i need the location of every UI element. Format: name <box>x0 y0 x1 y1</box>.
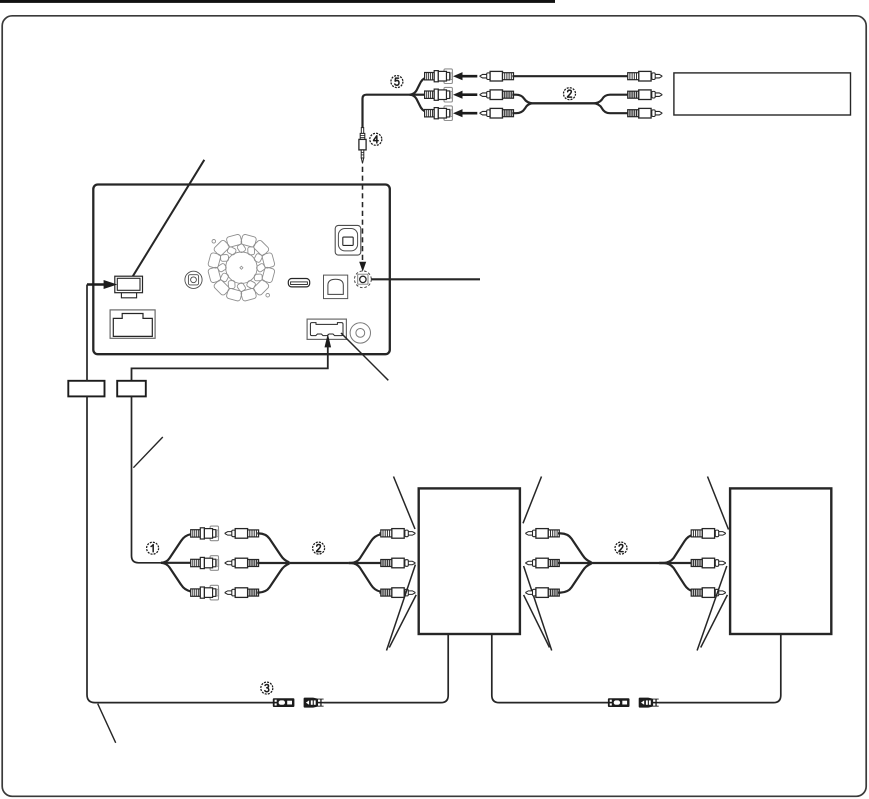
USB type-B port <box>324 275 348 299</box>
AV input mini jack <box>355 271 372 288</box>
ISO wiring connector <box>110 310 155 338</box>
quick disconnect pair right <box>608 698 659 708</box>
cable2a split upper <box>349 533 382 563</box>
label circled 2 left <box>313 542 325 554</box>
wire splitter upper branch <box>410 76 428 94</box>
label circled 2 right <box>615 542 627 554</box>
RCA plug cable2a left 1 <box>225 529 259 539</box>
ground wire box1 right <box>492 635 612 703</box>
leader line on wire 1 <box>133 437 162 468</box>
label circled 5 <box>391 76 403 88</box>
ground wire box2 <box>655 635 781 703</box>
cable2a single wire <box>289 562 349 564</box>
RCA plug cable2a left 2 <box>225 558 259 568</box>
cable2 wire middle row <box>512 95 628 104</box>
plug-in arrow 3 <box>453 109 477 117</box>
cable2b lower merge <box>558 564 592 593</box>
cable2a lower merge <box>257 564 289 593</box>
leader line box1 bottom-left b <box>389 595 416 648</box>
HDMI connector <box>288 279 309 287</box>
cooling fan <box>208 234 276 302</box>
leader line from AV jack <box>371 278 480 280</box>
leader line box1 bottom-right a <box>524 566 552 651</box>
cable2b middle merge <box>558 562 592 564</box>
cable2a middle merge <box>257 562 289 564</box>
splitter1 upper branch <box>161 533 191 562</box>
RCA plug cable2 right 2 <box>628 90 662 100</box>
expansion port connector <box>335 225 361 255</box>
cable2a split middle <box>349 562 382 564</box>
wire splitter middle branch <box>410 94 425 96</box>
RCA plug cable2a left 3 <box>225 588 259 598</box>
label circled 2 top <box>564 88 576 100</box>
label circled 3 <box>261 682 273 694</box>
RCA plug from box1 1 <box>526 529 559 539</box>
leader line bottom left <box>98 704 116 743</box>
RCA plug into box1 1 <box>381 529 415 539</box>
RCA plug into box1 2 <box>381 558 415 568</box>
RCA plug cable2 left 3 <box>480 108 514 118</box>
inline connector box B <box>117 381 146 397</box>
AV adapter female RCA 1-3 <box>191 585 219 600</box>
cable2 wire bottom row <box>512 103 628 113</box>
dashed insertion line <box>362 167 364 261</box>
AV female RCA jack 5-1 <box>425 69 453 84</box>
cable2b split middle <box>659 562 692 564</box>
RCA plug into box1 3 <box>381 588 415 598</box>
external unit box 2 <box>730 488 831 634</box>
cable2b single wire <box>592 562 660 564</box>
arrow down into AV jack <box>359 262 366 272</box>
RCA plug from box1 2 <box>526 558 559 568</box>
splitter1 lower branch <box>161 563 191 593</box>
leader line box2 top-left <box>708 477 729 530</box>
cable2b split lower <box>659 563 694 593</box>
AV female RCA jack 5-3 <box>425 106 453 121</box>
arrow into harness connector <box>87 280 117 289</box>
cable2b split upper <box>659 533 694 563</box>
splitter1 middle branch <box>161 562 191 564</box>
RCA plug into box2 1 <box>691 529 725 539</box>
label box top right <box>674 73 851 115</box>
AV female RCA jack 5-2 <box>425 87 453 102</box>
external unit box 1 <box>419 488 520 634</box>
cable2 wire top row <box>512 75 628 77</box>
wire splitter lower branch <box>410 95 428 113</box>
left wire upper segment <box>86 285 88 382</box>
inline connector box A <box>68 381 104 397</box>
leader line box1 top-left <box>394 477 416 530</box>
wire from mini plug 4 to splitter branch <box>363 95 410 129</box>
ground wire box1 left <box>307 635 448 703</box>
rear USB connector <box>307 319 346 339</box>
page title underline <box>0 0 555 3</box>
leader line to unit top <box>131 160 204 279</box>
label circled 1 <box>147 542 159 554</box>
wire from box B to splitter 1 <box>132 396 161 563</box>
cable2a upper merge <box>257 533 289 562</box>
leader line box1 bottom-left a <box>387 565 416 651</box>
round connector <box>350 323 370 343</box>
quick disconnect pair item 3 <box>273 698 324 708</box>
AV adapter female RCA 1-1 <box>191 526 219 541</box>
cable2b upper merge <box>558 533 592 562</box>
input harness connector <box>115 276 143 298</box>
RCA plug cable2 left 2 <box>480 90 514 100</box>
RCA plug cable2 left 1 <box>480 71 514 81</box>
leader line box1 top-right <box>523 477 542 524</box>
3.5mm mini plug item 4 <box>359 128 366 164</box>
RCA plug cable2 right 1 <box>628 71 662 81</box>
antenna jack <box>185 271 202 288</box>
cable2a split lower <box>349 563 382 593</box>
leader line box1 bottom-right b <box>524 595 550 648</box>
RCA plug from box1 3 <box>526 588 559 598</box>
RCA plug into box2 2 <box>691 558 725 568</box>
head unit rear panel <box>93 185 390 355</box>
left wire lower segment <box>87 396 292 702</box>
RCA plug cable2 right 3 <box>628 108 662 118</box>
AV adapter female RCA 1-2 <box>191 556 219 571</box>
label circled 4 <box>370 133 382 145</box>
plug-in arrow 2 <box>453 91 477 99</box>
arrow into rear USB <box>132 334 332 381</box>
plug-in arrow 1 <box>453 72 477 80</box>
RCA plug into box2 3 <box>691 588 725 598</box>
leader line box2 bottom-left a <box>697 566 727 651</box>
leader line box2 bottom-left b <box>701 595 728 648</box>
leader line from rear USB <box>341 333 388 380</box>
